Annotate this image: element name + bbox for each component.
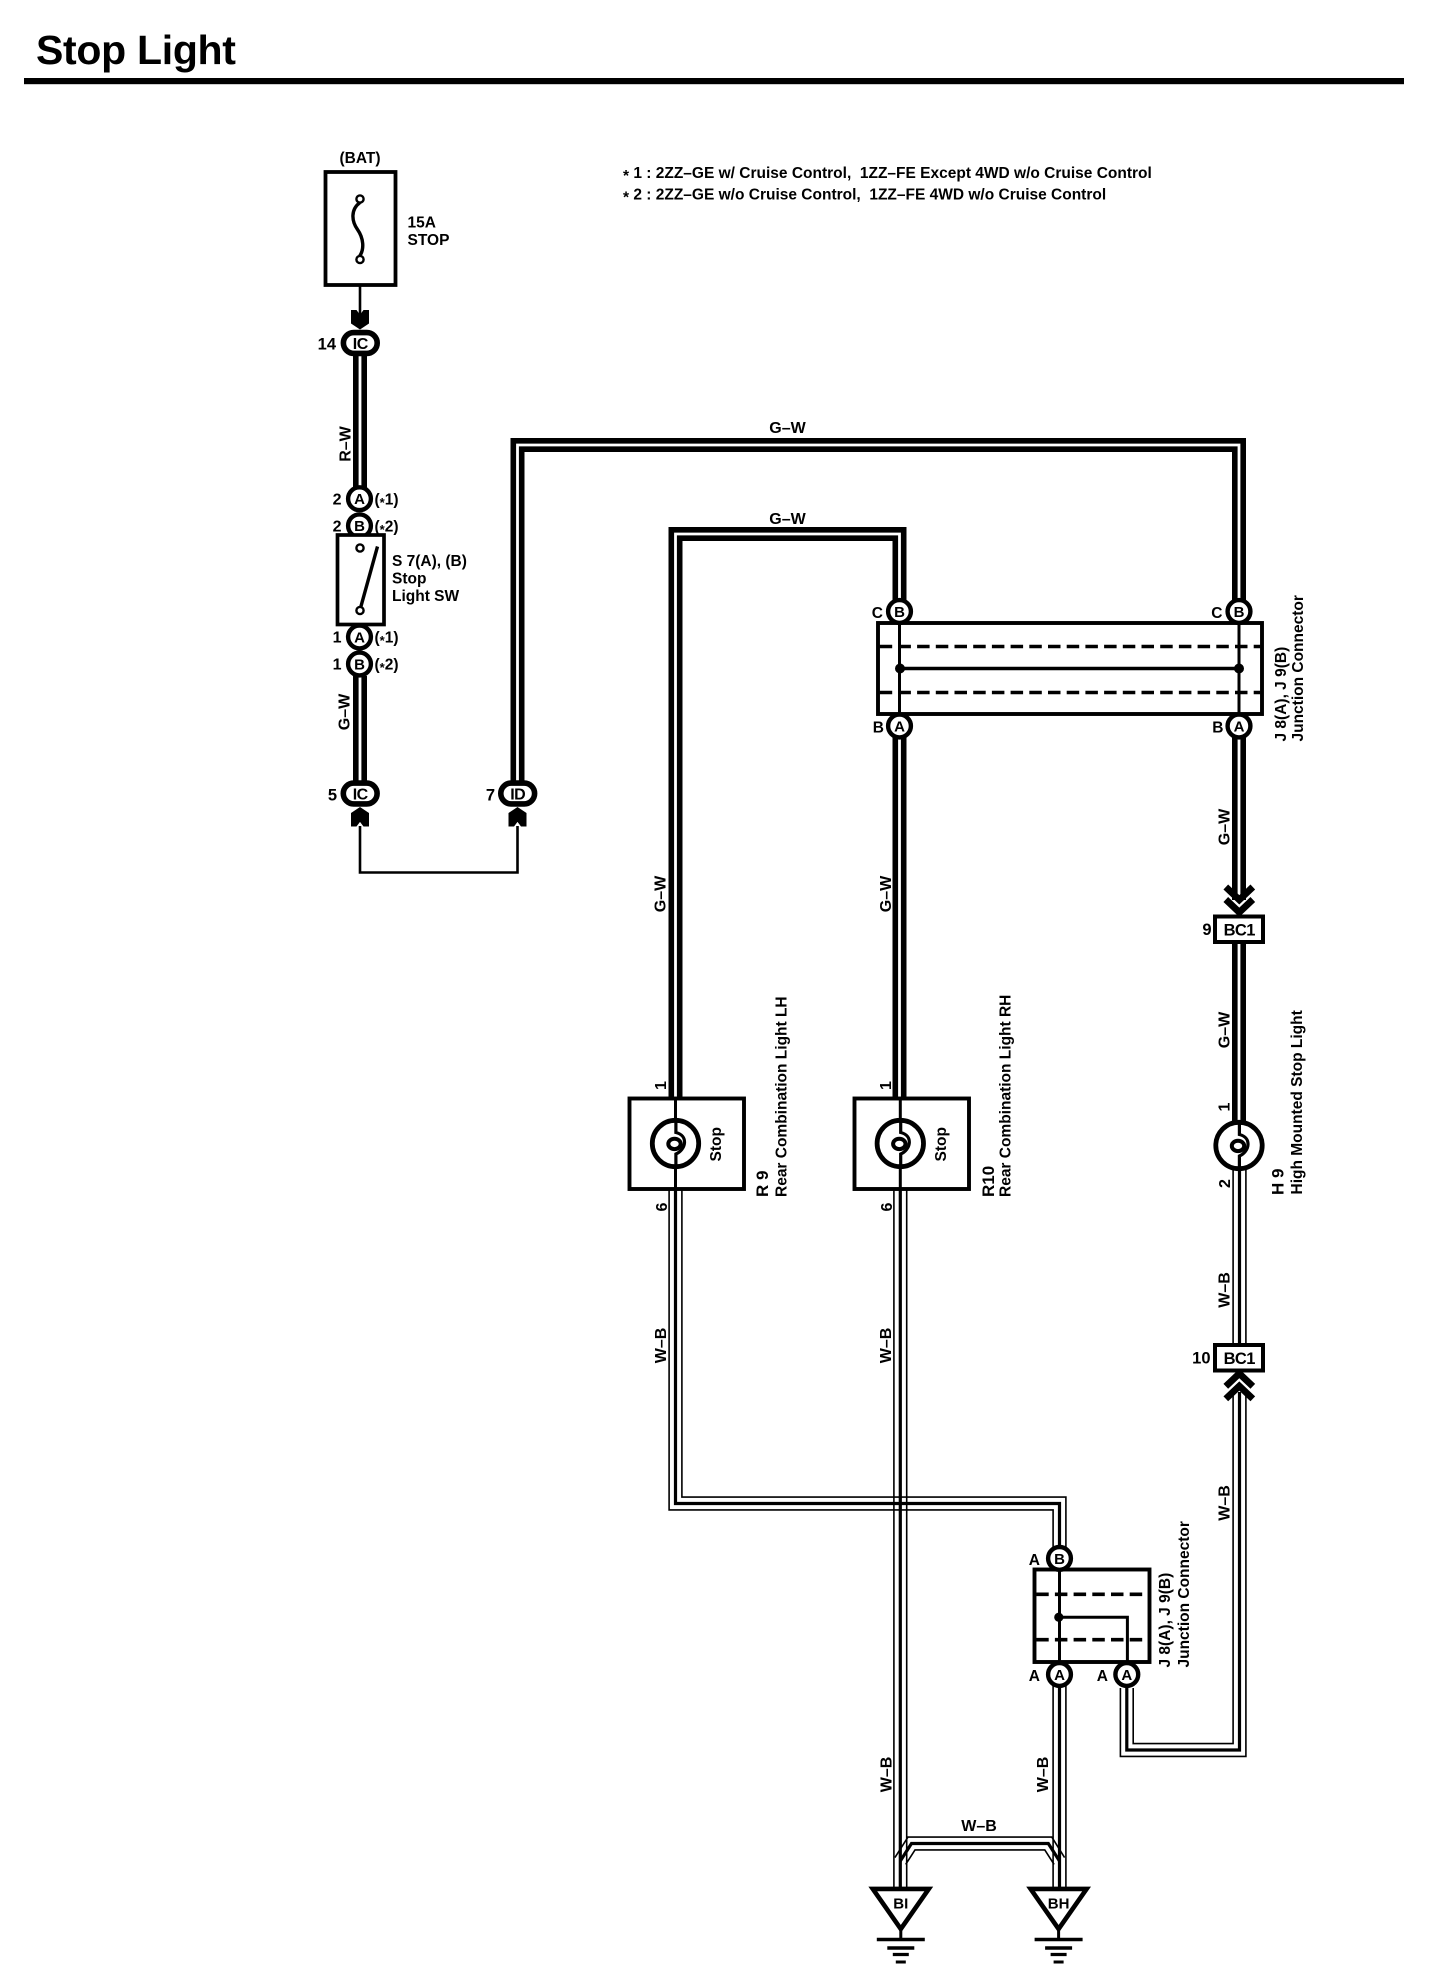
svg-text:(*1): (*1) — [375, 630, 399, 649]
label H 9 High Mounted Stop Light — [1269, 1010, 1307, 1195]
junction 2 pin A(B) top — [1048, 1547, 1071, 1570]
svg-text:A: A — [1234, 718, 1245, 735]
svg-text:R10: R10 — [979, 1166, 998, 1197]
label S 7(A), (B) Stop Light SW — [392, 553, 467, 605]
junction 1 left pin line — [898, 605, 901, 730]
svg-text:Junction Connector: Junction Connector — [1176, 1521, 1193, 1667]
svg-text:A: A — [894, 718, 905, 735]
svg-text:Light SW: Light SW — [392, 588, 460, 605]
junction 2 pin line vertical — [1058, 1552, 1061, 1680]
junction 2 dashed bus lower — [1036, 1638, 1148, 1642]
svg-text:9: 9 — [1202, 921, 1211, 939]
svg-text:STOP: STOP — [408, 232, 450, 249]
wire G-W switch to connector IC5 — [356, 676, 364, 783]
svg-text:W–B: W–B — [878, 1328, 895, 1364]
svg-text:Stop Light: Stop Light — [36, 27, 236, 73]
svg-text:BC1: BC1 — [1224, 922, 1256, 940]
fuse 15A STOP box — [326, 172, 396, 285]
svg-text:2: 2 — [333, 492, 342, 509]
svg-text:R 9: R 9 — [753, 1171, 772, 1197]
svg-text:1: 1 — [878, 1081, 895, 1090]
arrow up into ID7 — [509, 807, 527, 827]
svg-text:A: A — [1029, 1668, 1040, 1685]
switch pin 1 A (*1) — [348, 626, 371, 649]
svg-text:G–W: G–W — [878, 875, 895, 912]
ground BI — [873, 1889, 929, 1962]
svg-text:B: B — [873, 720, 884, 737]
svg-text:5: 5 — [328, 787, 337, 805]
svg-text:BC1: BC1 — [1224, 1350, 1256, 1368]
wire G-W inner loop R9 to junction C(B) left — [671, 530, 903, 1100]
svg-text:IC: IC — [353, 786, 369, 803]
wire G-W BC1 to high mounted stop light H9 — [1235, 941, 1243, 1124]
svg-text:C: C — [872, 605, 883, 622]
svg-text:Rear Combination Light RH: Rear Combination Light RH — [998, 995, 1015, 1197]
svg-text:A: A — [354, 629, 365, 646]
bulb Stop R10 — [877, 1120, 923, 1166]
svg-text:R–W: R–W — [338, 425, 355, 461]
junction 1 pin C(B) left — [888, 600, 911, 623]
switch pin 2 A (*1) — [348, 487, 371, 510]
svg-text:W–B: W–B — [1035, 1757, 1052, 1793]
wire G-W junction B(A) right down to arrow BC1 — [1235, 737, 1243, 900]
svg-text:High Mounted Stop Light: High Mounted Stop Light — [1289, 1010, 1306, 1194]
svg-text:H 9: H 9 — [1269, 1169, 1288, 1195]
arrow up into IC5 — [351, 807, 369, 827]
title rule — [24, 78, 1404, 84]
svg-text:6: 6 — [879, 1203, 896, 1212]
svg-text:IC: IC — [353, 336, 369, 353]
svg-text:G–W: G–W — [769, 511, 806, 528]
svg-text:B: B — [1212, 720, 1223, 737]
svg-text:14: 14 — [318, 336, 337, 354]
wire W-B R10 down to ground BI — [894, 1188, 907, 1888]
svg-text:B: B — [894, 604, 905, 621]
connector BC1 pin 10 box — [1215, 1345, 1263, 1371]
svg-text:Stop: Stop — [933, 1127, 950, 1161]
arrow down into connector IC14 — [351, 310, 369, 330]
svg-text:W–B: W–B — [653, 1328, 670, 1364]
wire G-W junction B(A) left to R10 — [895, 737, 903, 1100]
svg-text:(*2): (*2) — [375, 657, 399, 676]
svg-text:1: 1 — [1217, 1103, 1234, 1112]
junction 1 dashed bus lower — [880, 691, 1261, 695]
arrow double chevron up out of BC1 pin10 — [1226, 1374, 1253, 1399]
svg-text:A: A — [1029, 1552, 1040, 1569]
junction 2 branch with node dot — [1054, 1613, 1127, 1666]
svg-text:Junction Connector: Junction Connector — [1290, 595, 1307, 741]
rear combination light R9 box — [630, 1099, 745, 1190]
wire fuse output to arrow — [359, 262, 362, 315]
svg-text:Stop: Stop — [392, 571, 426, 588]
junction 2 pin A(A) left bottom — [1048, 1663, 1071, 1686]
stop light switch S7 box — [338, 535, 385, 625]
svg-text:1: 1 — [333, 630, 342, 647]
label R 9 Rear Combination Light LH — [753, 996, 791, 1197]
svg-text:J 8(A), J 9(B): J 8(A), J 9(B) — [1273, 647, 1290, 742]
svg-text:2: 2 — [333, 519, 342, 536]
note *1 engine applicability — [623, 165, 1152, 185]
switch blade and contacts — [356, 544, 377, 614]
junction 1 solid bus with node dots — [895, 664, 1244, 674]
svg-text:A: A — [1097, 1668, 1108, 1685]
wire W-B H9 to BC1 pin10 — [1233, 1168, 1246, 1346]
junction 1 dashed bus upper — [880, 645, 1261, 649]
junction 1 pin B(A) right — [1228, 715, 1251, 738]
ground BH — [1031, 1889, 1087, 1962]
svg-text:(BAT): (BAT) — [339, 150, 380, 167]
junction 1 pin C(B) right — [1228, 600, 1251, 623]
svg-text:G–W: G–W — [653, 875, 670, 912]
fuse element symbol — [353, 195, 364, 263]
svg-text:W–B: W–B — [961, 1818, 997, 1835]
wire W-B junction A(A) to ground BH — [1053, 1686, 1066, 1888]
svg-text:A: A — [1054, 1667, 1065, 1684]
wire G-W outer loop ID7 to junction C(B) right — [513, 441, 1243, 784]
svg-text:10: 10 — [1192, 1350, 1210, 1368]
svg-text:1: 1 — [333, 657, 342, 674]
junction 1 right pin line — [1238, 605, 1241, 730]
svg-text:J 8(A), J 9(B): J 8(A), J 9(B) — [1157, 1573, 1174, 1668]
switch pin 1 B (*2) — [348, 653, 371, 676]
svg-text:G–W: G–W — [769, 420, 806, 437]
svg-text:1: 1 — [653, 1081, 670, 1090]
svg-text:W–B: W–B — [1217, 1485, 1234, 1521]
svg-text:6: 6 — [654, 1203, 671, 1212]
rear combination light R10 box — [855, 1099, 970, 1190]
note *2 engine applicability — [623, 187, 1106, 207]
svg-text:A: A — [354, 491, 365, 508]
wire W-B ground bridge between BI and BH wires — [895, 1837, 1065, 1864]
label R10 Rear Combination Light RH — [979, 995, 1015, 1197]
label J 8(A), J 9(B) Junction Connector lower — [1157, 1521, 1193, 1667]
junction connector J8/J9 box lower — [1035, 1570, 1150, 1663]
high mounted stop light H9 bulb — [1216, 1122, 1262, 1168]
svg-text:A: A — [1121, 1667, 1132, 1684]
svg-text:ID: ID — [510, 786, 525, 803]
svg-text:BI: BI — [893, 1896, 908, 1913]
svg-text:Rear Combination Light LH: Rear Combination Light LH — [774, 996, 791, 1197]
svg-text:7: 7 — [486, 787, 495, 805]
bulb Stop R9 — [652, 1120, 698, 1166]
svg-text:G–W: G–W — [1217, 1011, 1234, 1048]
svg-text:W–B: W–B — [879, 1757, 896, 1793]
svg-text:G–W: G–W — [1217, 808, 1234, 845]
junction 1 pin B(A) left — [888, 715, 911, 738]
wire R-W fuse to stop light switch — [356, 355, 364, 489]
wire W-B BC1 pin10 down and left to junction A(A) — [1120, 1392, 1246, 1756]
svg-text:B: B — [354, 656, 365, 673]
connector BC1 pin 9 box — [1215, 917, 1263, 943]
label 15A STOP — [408, 215, 450, 250]
svg-text:W–B: W–B — [1217, 1272, 1234, 1308]
svg-text:BH: BH — [1048, 1896, 1070, 1913]
junction 2 dashed bus upper — [1036, 1593, 1148, 1597]
junction 2 pin A(A) right bottom — [1115, 1663, 1138, 1686]
svg-text:G–W: G–W — [337, 693, 354, 730]
svg-text:C: C — [1211, 605, 1222, 622]
svg-text:B: B — [354, 518, 365, 535]
svg-text:B: B — [1234, 604, 1245, 621]
connector IC pin 5 oval — [343, 783, 377, 804]
switch pin 2 B (*2) — [348, 514, 371, 537]
connector IC pin 14 oval — [343, 333, 377, 354]
svg-text:S 7(A), (B): S 7(A), (B) — [392, 553, 467, 570]
svg-text:(*1): (*1) — [375, 492, 399, 511]
connector ID pin 7 oval — [501, 783, 535, 804]
wire link IC5 to ID7 — [360, 826, 518, 873]
wire W-B R9 down and right to junction A(B) — [669, 1188, 1066, 1547]
junction connector J8/J9 box upper — [878, 623, 1262, 714]
svg-text:B: B — [1054, 1551, 1065, 1568]
svg-text:15A: 15A — [408, 215, 436, 232]
arrow double chevron down into BC1 pin9 — [1226, 887, 1253, 912]
svg-text:2: 2 — [1217, 1179, 1234, 1188]
svg-text:Stop: Stop — [708, 1127, 725, 1161]
label J 8(A), J 9(B) Junction Connector upper — [1273, 595, 1307, 741]
